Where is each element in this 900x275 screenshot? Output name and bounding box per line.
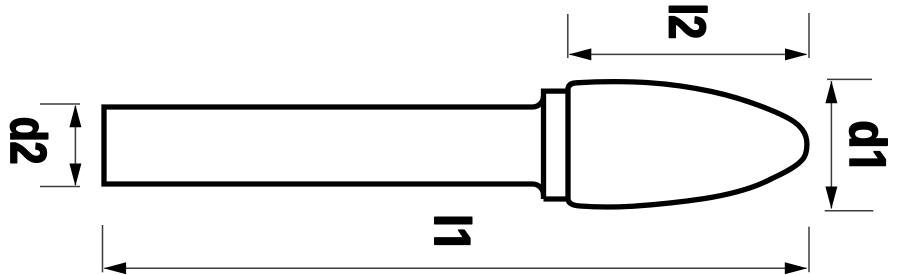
d2 extension tick top <box>40 103 80 105</box>
l2 extension line left <box>567 14 569 58</box>
d2 dimension line (vertical) <box>74 106 76 185</box>
label l1 (rotated 90deg cw) <box>435 217 472 244</box>
l1 dimension line (horizontal) <box>105 267 807 269</box>
d2 arrowhead up <box>69 105 81 128</box>
l2 dimension line (horizontal) <box>570 53 807 55</box>
d1 extension tick top <box>827 78 872 80</box>
d1 arrowhead up <box>825 81 837 104</box>
l2 extension line right <box>808 13 810 58</box>
shank (cylindrical shaft, outline with fillets into collar) <box>104 96 544 195</box>
l1 extension line left <box>102 225 104 272</box>
d1 extension tick bottom <box>825 210 874 212</box>
collar (neck step between shank and cutting head) <box>544 91 569 199</box>
label d2 (rotated 90deg cw) <box>10 119 47 163</box>
d2 arrowhead down <box>69 164 81 187</box>
d1 dimension line (vertical) <box>830 81 832 209</box>
label l2 (rotated 90deg cw) <box>669 6 707 37</box>
l1 extension line right <box>808 227 810 273</box>
l1 arrowhead right <box>785 262 808 274</box>
l2 arrowhead left <box>569 48 592 60</box>
l1 arrowhead left <box>104 262 127 274</box>
d2 extension tick bottom <box>40 186 80 188</box>
head (tree-radius burr cutting head outline) <box>568 82 807 207</box>
label d1 (rotated 90deg cw) <box>850 122 888 165</box>
l2 arrowhead right <box>785 48 808 60</box>
d1 arrowhead down <box>825 187 837 210</box>
